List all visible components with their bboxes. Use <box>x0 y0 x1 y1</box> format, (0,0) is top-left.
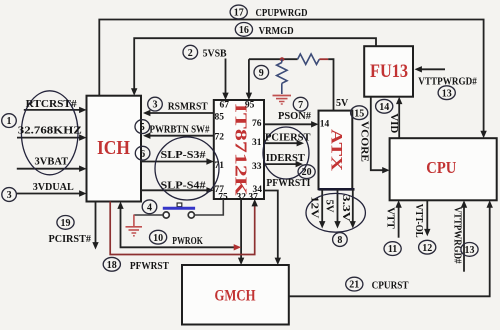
svg-text:FU13: FU13 <box>370 61 408 82</box>
svg-text:CPU: CPU <box>426 158 456 177</box>
resistor R2 vertical <box>277 59 287 94</box>
node reset ellipse <box>263 127 309 179</box>
node step 5 <box>135 120 150 134</box>
wire PFWRSTI pin34 to GMCH <box>264 191 281 266</box>
svg-text:PWROK: PWROK <box>172 236 203 247</box>
svg-text:ATX: ATX <box>328 129 345 172</box>
svg-text:3: 3 <box>7 190 12 201</box>
svg-text:2: 2 <box>188 48 193 59</box>
svg-text:6: 6 <box>140 149 145 160</box>
svg-text:71: 71 <box>215 161 225 171</box>
svg-text:5V: 5V <box>336 98 349 109</box>
svg-text:SLP-S4#: SLP-S4# <box>161 180 207 191</box>
svg-text:10: 10 <box>153 233 163 244</box>
wire VTT-OL out of CPU <box>424 200 430 236</box>
node step 16 <box>235 23 252 37</box>
node step 19 <box>57 216 74 230</box>
IC U5 CPU <box>390 138 497 200</box>
IC U1 ICH <box>87 96 142 202</box>
svg-text:14: 14 <box>320 120 330 130</box>
svg-text:4: 4 <box>147 202 152 213</box>
svg-text:ICH: ICH <box>97 137 130 159</box>
svg-text:PCIRST#: PCIRST# <box>49 234 92 245</box>
svg-text:21: 21 <box>349 280 359 291</box>
node step 17 <box>230 5 247 19</box>
svg-text:1: 1 <box>7 116 12 127</box>
node step 15 <box>351 106 368 120</box>
svg-text:7: 7 <box>298 100 303 111</box>
node step 20 <box>298 165 315 179</box>
svg-text:18: 18 <box>107 260 117 271</box>
node step 21 <box>346 277 363 291</box>
svg-text:GMCH: GMCH <box>215 288 256 305</box>
wire pin32 PWROK to GMCH <box>238 199 244 265</box>
svg-text:VCORE: VCORE <box>359 121 370 162</box>
svg-text:3.3V: 3.3V <box>340 195 351 223</box>
svg-text:34: 34 <box>253 185 263 195</box>
node step 6 <box>135 146 150 160</box>
node step 1 <box>2 114 17 128</box>
node RTC battery ellipse <box>21 91 78 175</box>
svg-text:19: 19 <box>61 218 71 229</box>
node step 8 <box>333 233 348 247</box>
svg-text:32: 32 <box>237 192 247 202</box>
svg-text:PFWRST: PFWRST <box>130 261 169 272</box>
wire VCORE FU13 to CPU <box>371 97 390 174</box>
wire VTT into CPU <box>395 200 401 237</box>
node step 9 <box>254 65 269 79</box>
wire switch left to ground <box>134 214 163 216</box>
svg-text:11: 11 <box>388 244 397 255</box>
wire VTTPWRGD# stub into FU13 <box>415 66 446 72</box>
svg-text:76: 76 <box>252 119 262 129</box>
wire PCIRST# out of ICH <box>92 202 98 250</box>
svg-text:VID: VID <box>388 113 399 133</box>
wire ATX 12V output <box>319 189 325 228</box>
resistor R1 horizontal <box>298 54 320 64</box>
node step 10 <box>150 230 167 244</box>
wire IDERST pin33 <box>264 161 303 167</box>
svg-text:SLP-S3#: SLP-S3# <box>161 150 207 161</box>
svg-text:13: 13 <box>465 245 475 256</box>
wire PSON# pin76 to ATX pin14 <box>264 121 319 127</box>
node step 4 <box>142 200 157 214</box>
svg-text:PFWRSTI: PFWRSTI <box>266 178 310 189</box>
svg-text:14: 14 <box>379 102 389 113</box>
IC U2 IT8712K <box>214 100 264 199</box>
svg-text:PSON#: PSON# <box>278 111 312 122</box>
node step 11 <box>384 242 401 256</box>
svg-text:PCIERST: PCIERST <box>265 132 311 143</box>
svg-text:5: 5 <box>140 122 145 133</box>
svg-text:3VDUAL: 3VDUAL <box>33 182 74 193</box>
node step 7 <box>293 97 308 111</box>
svg-text:95: 95 <box>245 101 255 111</box>
wire RTCRST# into ICH <box>24 107 87 113</box>
svg-text:32.768KHZ: 32.768KHZ <box>18 126 82 137</box>
IC U6 GMCH <box>182 265 289 325</box>
node step 18 <box>103 257 120 271</box>
wire 3VBAT into ICH <box>17 166 87 172</box>
wire VID CPU to FU13 <box>396 97 402 139</box>
node step 2 <box>183 45 198 59</box>
svg-text:9: 9 <box>259 68 264 79</box>
svg-text:RTCRST#: RTCRST# <box>26 99 78 110</box>
node step 3 left <box>2 188 17 202</box>
wire VRMGD net 16 (FU13 top to ICH top) <box>131 38 376 95</box>
svg-text:5V: 5V <box>324 200 335 213</box>
svg-text:16: 16 <box>239 25 249 36</box>
svg-text:CPURST: CPURST <box>372 281 409 292</box>
node step 14 <box>376 99 393 113</box>
svg-text:IDERST: IDERST <box>266 153 305 164</box>
wire PFWRST red (ICH to pin37) <box>110 199 258 255</box>
svg-text:72: 72 <box>215 133 225 143</box>
wire CPURST GMCH to CPU <box>289 200 493 296</box>
wire PCIERST pin31 <box>264 140 304 146</box>
node step 12 <box>419 240 436 254</box>
node SLP ellipse <box>155 137 219 200</box>
svg-text:67: 67 <box>220 101 230 111</box>
wire 3VDUAL into ICH <box>16 190 86 196</box>
wire switch right to pin75 <box>194 199 223 215</box>
svg-text:3VBAT: 3VBAT <box>35 157 69 168</box>
wire SLP-S3# ICH to pin71 <box>141 158 214 164</box>
svg-text:8: 8 <box>337 235 342 246</box>
svg-text:85: 85 <box>215 113 225 123</box>
wire PWRBTN SW# pin72 to ICH <box>143 133 214 139</box>
wire 5VSB drop to pin 67 <box>222 59 228 101</box>
node junction 5VSB/R2 <box>280 57 285 61</box>
svg-text:VRMGD: VRMGD <box>259 25 294 37</box>
wire CPUPWRGD net 17 (ICH top to CPU top) <box>99 20 487 139</box>
wire SLP-S4# ICH to pin77 <box>141 187 214 193</box>
wire ATX 5V output <box>334 189 340 228</box>
svg-text:CPUPWRGD: CPUPWRGD <box>256 7 308 19</box>
wire VTTPWRGD# into CPU bottom <box>461 200 467 271</box>
node ATX output ellipse <box>306 193 365 232</box>
wire 5V pull-up net (pin 95 up, right to ATX 5V) <box>246 59 334 110</box>
connector U3 ATX power <box>319 111 355 190</box>
svg-text:12V: 12V <box>309 196 320 218</box>
svg-text:VTTPWRGD#: VTTPWRGD# <box>452 207 463 265</box>
svg-text:RSMRST: RSMRST <box>168 102 208 113</box>
wire PWROK branch to ICH <box>117 202 241 251</box>
svg-text:33: 33 <box>252 162 262 172</box>
wire ATX 3.3V output <box>350 189 356 228</box>
switch SW1 power button <box>163 203 195 218</box>
svg-text:31: 31 <box>252 138 262 148</box>
svg-text:15: 15 <box>354 108 364 119</box>
svg-text:VTT: VTT <box>385 207 396 229</box>
wire 32.768KHZ into ICH <box>17 134 87 140</box>
node step 13 top <box>438 86 455 100</box>
ground GND2 (switch) <box>126 215 143 236</box>
svg-text:3: 3 <box>153 100 158 111</box>
svg-text:17: 17 <box>234 8 244 19</box>
svg-text:5VSB: 5VSB <box>203 48 228 60</box>
svg-text:13: 13 <box>442 88 452 99</box>
node step 13 bottom <box>461 243 478 257</box>
svg-text:IT8712K: IT8712K <box>232 104 251 196</box>
wire RSMRST pin85 to ICH <box>143 110 214 116</box>
svg-text:VTT-OL: VTT-OL <box>413 204 424 238</box>
ground GND1 (below R2) <box>273 96 292 105</box>
svg-text:75: 75 <box>218 192 228 202</box>
node step 3 right <box>148 97 163 111</box>
fuse FU13 <box>364 46 413 96</box>
svg-text:PWRBTN SW#: PWRBTN SW# <box>150 125 211 136</box>
svg-text:20: 20 <box>302 167 312 178</box>
svg-text:12: 12 <box>422 243 432 254</box>
